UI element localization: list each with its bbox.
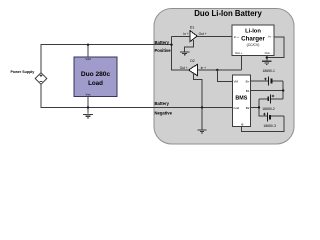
svg-text:D2: D2 (190, 59, 195, 63)
svg-text:Duo Li-Ion Battery: Duo Li-Ion Battery (194, 9, 262, 18)
node junction positive (170, 44, 172, 46)
charger U1 box (232, 25, 274, 56)
svg-text:B+: B+ (246, 80, 250, 84)
node junction out- (266, 56, 268, 58)
svg-text:B1: B1 (246, 89, 250, 93)
wire charger in- loop (267, 37, 284, 58)
svg-text:VM: VM (234, 80, 239, 84)
node junction charger out (216, 69, 218, 71)
battery module container (154, 9, 294, 145)
svg-text:Out -: Out - (265, 51, 272, 55)
svg-text:Out +: Out + (235, 51, 243, 55)
svg-text:In -: In - (268, 35, 272, 39)
wire tap1 to BMS (251, 90, 284, 92)
power supply PS1 (diamond source) (35, 73, 47, 85)
svg-text:In +: In + (234, 35, 239, 39)
wire negative rail bottom (41, 84, 232, 107)
wire cell1- down (282, 81, 284, 99)
svg-text:Power Supply: Power Supply (11, 70, 35, 74)
svg-text:Li-Ion: Li-Ion (245, 28, 261, 34)
ground G2 (198, 130, 207, 133)
svg-text:Gnd: Gnd (234, 106, 240, 110)
wire D1 gnd tail (185, 40, 194, 51)
svg-text:18650-2: 18650-2 (262, 107, 275, 111)
svg-text:Vss: Vss (85, 93, 91, 97)
svg-text:Load: Load (88, 80, 103, 87)
BMS box (232, 75, 250, 126)
svg-text:D1: D1 (190, 26, 195, 30)
wire Vss drop (87, 97, 89, 114)
svg-text:Out +: Out + (180, 66, 188, 70)
svg-text:Battery: Battery (155, 101, 170, 106)
svg-text:B2: B2 (246, 106, 250, 110)
ground G0 under load (83, 114, 93, 118)
wire to BMS VM (217, 70, 232, 81)
node junction top (87, 44, 89, 46)
svg-text:Duo 280c: Duo 280c (81, 71, 111, 78)
svg-text:In +: In + (183, 32, 189, 36)
node junction tap1 (282, 89, 284, 91)
wire positive node riser (172, 36, 189, 70)
svg-text:18650-1: 18650-1 (263, 69, 276, 73)
wire charger out- drop (266, 56, 268, 61)
svg-text:In +: In + (201, 66, 207, 70)
svg-text:BMS: BMS (235, 96, 247, 102)
wire D1 input (172, 35, 191, 37)
wire charger out+ drop (241, 56, 243, 70)
wire D2 input from charger output node (197, 69, 241, 71)
ground G1 (180, 52, 190, 55)
svg-text:B-: B- (241, 123, 244, 127)
node junction tap2 (258, 106, 260, 108)
load block Duo 280c (74, 57, 117, 97)
wire D2 gnd tail (194, 74, 203, 130)
battery cell 18650-3 (plus on left) (263, 113, 284, 122)
wire cell3- to BMS B- (242, 116, 284, 131)
svg-text:18650-3: 18650-3 (263, 124, 276, 128)
svg-text:(CC/CV): (CC/CV) (247, 43, 260, 47)
wire D1 output to charger (197, 35, 232, 37)
svg-text:Positive: Positive (155, 48, 172, 53)
svg-text:Out +: Out + (199, 32, 207, 36)
ground G3 (262, 61, 272, 64)
node junction bottom (87, 106, 89, 108)
svg-text:Negative: Negative (155, 111, 173, 116)
node junction negative (201, 106, 203, 108)
wire cell2- down rail (259, 99, 267, 116)
wire tap2 to BMS (251, 107, 259, 109)
battery cell 18650-2 (plus on right) (259, 94, 283, 103)
svg-text:Battery: Battery (155, 40, 170, 45)
wire Vdd drop to load (87, 45, 89, 57)
battery cell 18650-1 (251, 77, 284, 86)
diode D2 (points left) (189, 64, 198, 75)
diode D1 (190, 31, 197, 42)
svg-text:Charger: Charger (241, 36, 265, 43)
svg-text:Vdd: Vdd (85, 57, 91, 61)
wire positive rail top (41, 45, 172, 73)
